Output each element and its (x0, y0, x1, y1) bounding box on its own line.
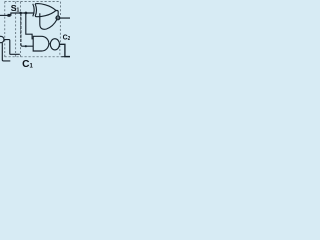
wire: bottom-right output run overlapping dashed border (61, 56, 70, 58)
wire: port to right edge (56, 17, 70, 19)
wire: AND output into lamp (49, 43, 50, 45)
wire: lamp right, L-shape down to bottom right corner (59, 44, 70, 56)
port circle S (on boundary) (56, 16, 60, 20)
dashed module boundary: right edge x=60.5 (60, 2, 62, 16)
wire: from left port bottom down and right (second terminal) (2, 43, 11, 61)
junction dot A (25, 12, 28, 15)
port circle carry-in at left edge (0, 36, 4, 42)
junction dot on dashed boundary (19, 12, 22, 15)
junction dot B (25, 45, 27, 47)
svg-text:C2: C2 (63, 35, 70, 42)
dashed divider x=15.7 (15, 2, 17, 57)
wire: input from left edge into switch (0, 14, 8, 16)
wire: staircase from dot A down to AND gate top input (26, 13, 33, 39)
lamp circle C (50, 39, 59, 50)
wire: from left port right, down, right along bottom, up, right into AND lower input (4, 40, 20, 55)
wire: AND lower input horizontal (21, 44, 33, 46)
dashed boundary right edge mid (59, 21, 61, 43)
dashed module boundary: bottom edge (5, 56, 66, 58)
wire: riser from junction at top wire down to AND lower input (20, 13, 22, 45)
dashed divider x=20.6 (20, 2, 22, 57)
AND gate U2 (33, 36, 49, 51)
dashed module boundary: left edge (4, 2, 6, 57)
wire: XOR output bending down into port circle (56, 11, 58, 17)
XOR gate U1 (33, 4, 34, 17)
dashed module boundary: right edge lower part (59, 45, 61, 57)
wire: big arc from port down-left to vertical riser (40, 13, 57, 29)
switch S1 box (8, 14, 11, 17)
wire: switch step up to main input line (11, 13, 34, 15)
dashed module boundary: top edge (5, 1, 61, 3)
